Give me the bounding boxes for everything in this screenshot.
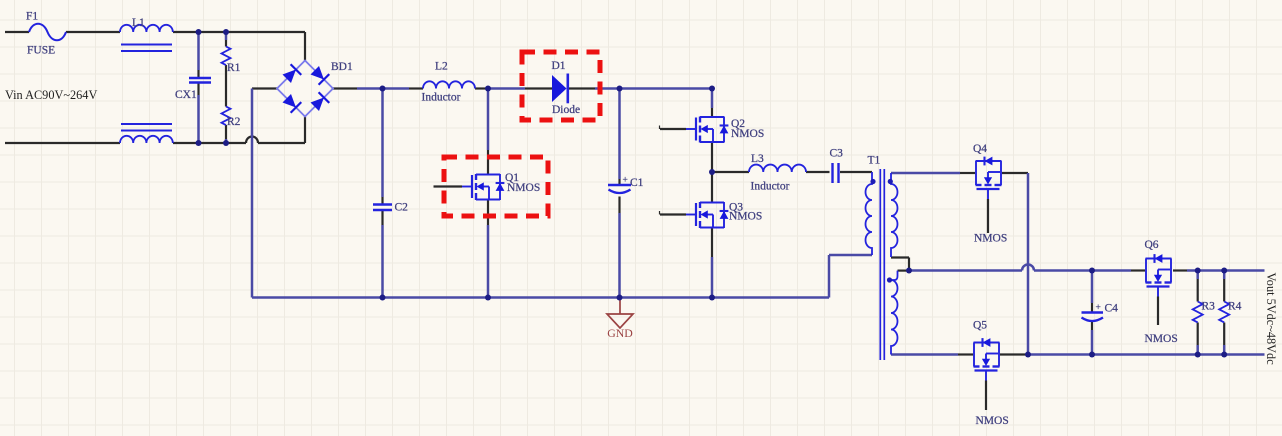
svg-text:Vin AC90V~264V: Vin AC90V~264V <box>5 88 97 102</box>
svg-text:R4: R4 <box>1228 301 1242 313</box>
svg-text:NMOS: NMOS <box>729 211 762 223</box>
svg-text:Q6: Q6 <box>1145 239 1159 251</box>
svg-text:L3: L3 <box>751 153 764 165</box>
svg-text:Diode: Diode <box>552 104 580 116</box>
svg-text:Vout 5Vdc~48Vdc: Vout 5Vdc~48Vdc <box>1264 273 1278 366</box>
svg-text:+: + <box>1096 303 1101 313</box>
svg-text:BD1: BD1 <box>331 61 353 73</box>
svg-text:F1: F1 <box>26 10 38 22</box>
svg-text:R1: R1 <box>227 62 241 74</box>
svg-text:FUSE: FUSE <box>27 45 55 57</box>
svg-text:C4: C4 <box>1105 303 1119 315</box>
svg-text:Q4: Q4 <box>973 143 987 155</box>
svg-text:L2: L2 <box>435 61 448 73</box>
svg-text:C2: C2 <box>395 202 409 214</box>
svg-text:T1: T1 <box>868 155 881 167</box>
svg-text:Inductor: Inductor <box>751 181 790 193</box>
svg-text:NMOS: NMOS <box>507 182 540 194</box>
svg-text:NMOS: NMOS <box>731 128 764 140</box>
svg-text:R2: R2 <box>227 116 241 128</box>
svg-text:NMOS: NMOS <box>1145 333 1178 345</box>
svg-text:GND: GND <box>607 326 633 340</box>
svg-text:+: + <box>623 176 628 186</box>
svg-text:R3: R3 <box>1202 301 1216 313</box>
svg-text:CX1: CX1 <box>175 89 197 101</box>
svg-text:D1: D1 <box>552 60 566 72</box>
svg-text:L1: L1 <box>132 17 145 29</box>
svg-text:Inductor: Inductor <box>422 92 461 104</box>
svg-text:NMOS: NMOS <box>974 233 1007 245</box>
svg-text:Q5: Q5 <box>973 320 987 332</box>
svg-text:C3: C3 <box>830 148 844 160</box>
svg-text:C1: C1 <box>630 177 644 189</box>
svg-text:NMOS: NMOS <box>976 415 1009 427</box>
